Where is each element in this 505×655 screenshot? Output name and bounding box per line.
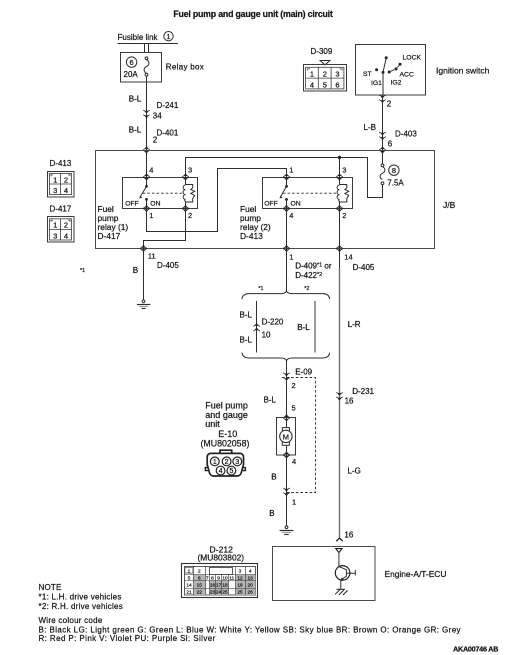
- svg-text:4: 4: [149, 166, 153, 175]
- svg-text:4: 4: [64, 186, 68, 195]
- relay 1 coil with parallel resistor: [183, 177, 195, 209]
- svg-text:L-R: L-R: [348, 320, 361, 329]
- svg-text:E-09: E-09: [295, 367, 312, 376]
- svg-text:Fusible link: Fusible link: [118, 33, 159, 42]
- svg-text:D-409*1 or: D-409*1 or: [295, 262, 332, 271]
- brace bottom: [242, 353, 330, 361]
- relay 2 pin 4: [283, 205, 289, 213]
- svg-text:7.5A: 7.5A: [387, 179, 404, 188]
- relay 1 pin 1: [143, 205, 149, 213]
- svg-text:NOTE: NOTE: [39, 583, 62, 592]
- svg-text:3: 3: [342, 166, 346, 175]
- svg-text:16: 16: [345, 397, 354, 406]
- relay 2 pin 1: [283, 173, 289, 181]
- svg-text:D-231: D-231: [352, 387, 374, 396]
- wire relay2 coil to J/B pin 14: [339, 209, 341, 249]
- svg-text:*1: *1: [80, 268, 85, 274]
- Engine-A/T-ECU box: [273, 547, 376, 601]
- svg-text:Ignition switch: Ignition switch: [436, 66, 490, 76]
- svg-text:34: 34: [153, 111, 162, 120]
- svg-text:Relay box: Relay box: [166, 63, 204, 72]
- svg-text:AKA00746 AB: AKA00746 AB: [453, 645, 498, 654]
- svg-text:6: 6: [388, 140, 393, 149]
- svg-text:4: 4: [249, 569, 252, 575]
- svg-text:8: 8: [211, 575, 214, 581]
- svg-text:1: 1: [149, 211, 153, 220]
- svg-text:IG1: IG1: [371, 80, 382, 87]
- chassis ground ECU: [335, 589, 347, 595]
- J/B exit pin 14: [336, 245, 342, 253]
- svg-text:18: 18: [222, 582, 228, 588]
- svg-text:2: 2: [153, 136, 158, 145]
- svg-text:D-403: D-403: [395, 130, 417, 139]
- svg-text:8: 8: [392, 166, 396, 175]
- svg-text:R: Red P: Pink V: Violet PU: R: Red P: Pink V: Violet PU: Purple Sl: …: [39, 634, 216, 643]
- svg-text:B: B: [269, 509, 274, 518]
- ground fuel pump: [280, 526, 294, 535]
- svg-text:ST: ST: [363, 71, 372, 78]
- ground left: [137, 300, 150, 309]
- svg-text:26: 26: [248, 590, 254, 596]
- svg-text:B: B: [133, 266, 138, 275]
- svg-text:LOCK: LOCK: [403, 55, 422, 62]
- svg-text:17: 17: [216, 582, 222, 588]
- svg-text:3: 3: [53, 186, 57, 195]
- svg-text:5: 5: [323, 81, 327, 90]
- svg-text:D-401: D-401: [157, 128, 179, 137]
- wire relay1 coil to J/B pin 11: [144, 209, 186, 249]
- J/B exit pin 1: [283, 245, 289, 253]
- svg-text:IG2: IG2: [391, 80, 402, 87]
- svg-text:2: 2: [225, 459, 229, 466]
- svg-text:ON: ON: [291, 200, 301, 207]
- svg-text:7: 7: [206, 575, 209, 581]
- svg-text:22: 22: [197, 590, 203, 596]
- svg-text:10: 10: [222, 575, 228, 581]
- fuel pump relay (1) box D-417: [123, 178, 198, 209]
- E-09 exit pin 1: [283, 488, 289, 496]
- svg-text:6: 6: [198, 575, 201, 581]
- svg-text:24: 24: [216, 590, 222, 596]
- wire B-L relay box to J/B: [146, 76, 148, 150]
- wire B-L inside J/B to relay 1 pin 4: [146, 150, 148, 177]
- svg-text:4: 4: [64, 231, 68, 240]
- wire relay1 switch out to relay2 switch in: [147, 169, 287, 232]
- svg-text:J/B: J/B: [443, 200, 456, 210]
- svg-text:E-10: E-10: [218, 429, 237, 439]
- svg-text:2: 2: [292, 381, 296, 390]
- svg-text:1: 1: [53, 175, 57, 184]
- svg-text:2: 2: [64, 221, 68, 230]
- svg-text:D-422*2: D-422*2: [295, 271, 322, 280]
- wire ignition IG1 to box bottom: [382, 74, 384, 95]
- relay 2 coil with parallel resistor: [337, 177, 349, 209]
- svg-text:*1: *1: [258, 286, 263, 292]
- svg-text:1: 1: [292, 497, 296, 506]
- J/B exit pin 11: [140, 245, 146, 253]
- svg-text:unit: unit: [205, 419, 220, 429]
- relay 2 pin 3: [336, 173, 342, 181]
- svg-text:25: 25: [237, 590, 243, 596]
- svg-text:1: 1: [310, 70, 314, 79]
- ignition switch contacts: [363, 55, 421, 88]
- svg-text:11: 11: [148, 252, 156, 261]
- svg-text:D-405: D-405: [353, 263, 375, 272]
- wire double line fusible link to relay box: [145, 44, 149, 53]
- fuse 6 20A: [126, 57, 136, 67]
- svg-text:3: 3: [239, 569, 242, 575]
- svg-text:(MU803802): (MU803802): [198, 552, 245, 562]
- ECU input triangle: [336, 549, 342, 553]
- svg-text:(MU802058): (MU802058): [201, 439, 250, 449]
- svg-text:5: 5: [292, 403, 296, 412]
- junction block J/B: [96, 151, 435, 249]
- svg-text:4: 4: [289, 211, 293, 220]
- wire below brace to E-09: [286, 361, 288, 378]
- svg-text:*2: *2: [304, 286, 309, 292]
- motor M: [280, 418, 292, 455]
- connector D-417 table: [48, 205, 75, 242]
- svg-text:25: 25: [222, 590, 228, 596]
- svg-text:14: 14: [344, 253, 352, 262]
- relay 1 actuation dashed line: [143, 192, 184, 194]
- svg-text:OFF: OFF: [264, 200, 278, 207]
- svg-text:B: B: [271, 473, 276, 482]
- svg-text:1: 1: [53, 221, 57, 230]
- svg-text:9: 9: [217, 575, 220, 581]
- svg-text:4: 4: [219, 468, 223, 475]
- fusible link bus bar: [118, 43, 179, 45]
- svg-text:5: 5: [188, 575, 191, 581]
- svg-text:B: Black LG: Light green G:: B: Black LG: Light green G: Green L: Blu…: [39, 626, 461, 635]
- svg-text:B-L: B-L: [129, 95, 142, 104]
- relay 1 pin 3: [182, 173, 188, 181]
- svg-text:D-417: D-417: [98, 231, 121, 241]
- svg-text:Fuel pump and gauge unit (main: Fuel pump and gauge unit (main) circuit: [173, 9, 333, 19]
- brace top: [242, 291, 330, 299]
- svg-text:B-L: B-L: [240, 335, 253, 344]
- svg-text:4: 4: [310, 81, 314, 90]
- svg-text:B-L: B-L: [264, 395, 277, 404]
- svg-text:5: 5: [229, 468, 233, 475]
- svg-text:M: M: [283, 432, 289, 441]
- svg-text:4: 4: [292, 457, 296, 466]
- svg-text:13: 13: [248, 575, 254, 581]
- wire alternative 2 B-L: [314, 301, 316, 353]
- connector D-212 table: [182, 564, 258, 598]
- svg-text:3: 3: [188, 166, 192, 175]
- relay 1 pin 4: [143, 173, 149, 181]
- svg-text:2: 2: [198, 569, 201, 575]
- relay box: [121, 53, 162, 83]
- svg-text:3: 3: [335, 70, 339, 79]
- svg-text:19: 19: [237, 582, 243, 588]
- wire fuse 8 to relay coils: [186, 158, 383, 198]
- svg-text:D-413: D-413: [240, 231, 263, 241]
- ignition switch box: [356, 45, 426, 96]
- connector D-413 table: [48, 159, 75, 197]
- transistor in ECU: [335, 553, 355, 589]
- wire from J/B pin 1 down to brace: [286, 249, 288, 291]
- svg-text:20: 20: [248, 582, 254, 588]
- svg-text:Wire colour code: Wire colour code: [39, 616, 103, 625]
- fuel pump relay (2) box D-413: [263, 178, 353, 209]
- fuse 8 7.5A: [380, 150, 404, 188]
- wire L-R / L-G from J/B pin 14 to ECU: [339, 249, 341, 269]
- connector D-309 table: [304, 65, 347, 92]
- svg-text:2: 2: [342, 211, 346, 220]
- relay 1 pin 2: [182, 205, 188, 213]
- svg-text:*1: L.H. drive vehicles: *1: L.H. drive vehicles: [39, 593, 122, 602]
- svg-text:1: 1: [213, 459, 217, 466]
- node junction to relay 2 coil: [338, 156, 341, 159]
- svg-text:3: 3: [53, 231, 57, 240]
- svg-text:2: 2: [323, 70, 327, 79]
- svg-text:D-417: D-417: [50, 205, 72, 214]
- svg-text:11: 11: [229, 575, 234, 581]
- svg-text:10: 10: [262, 330, 271, 339]
- svg-text:1: 1: [188, 569, 191, 575]
- svg-text:*2: R.H. drive vehicles: *2: R.H. drive vehicles: [39, 602, 123, 611]
- fusible link number 1: [164, 32, 173, 41]
- svg-text:14: 14: [186, 582, 192, 588]
- svg-text:ON: ON: [150, 200, 160, 207]
- fuel pump pin 4: [283, 451, 289, 459]
- svg-text:D-413: D-413: [50, 159, 72, 168]
- wire relay2 switch out to J/B pin 1: [286, 209, 288, 249]
- svg-text:B-L: B-L: [240, 311, 253, 320]
- wire L-B ignition to J/B: [382, 95, 384, 150]
- wire B to ground: [143, 249, 145, 300]
- svg-text:D-405: D-405: [157, 261, 179, 270]
- connector E-10 drawing: [205, 450, 245, 476]
- svg-text:2: 2: [188, 211, 192, 220]
- relay 2 actuation dashed line: [283, 192, 338, 194]
- svg-text:D-241: D-241: [157, 101, 179, 110]
- svg-text:21: 21: [186, 590, 192, 596]
- svg-text:1: 1: [289, 166, 293, 175]
- svg-text:L-G: L-G: [348, 466, 361, 475]
- relay 2 switch: [264, 177, 301, 209]
- svg-text:L-B: L-B: [364, 123, 376, 132]
- svg-text:2: 2: [387, 100, 392, 109]
- svg-text:OFF: OFF: [125, 200, 139, 207]
- connector D-309 marker triangle: [320, 61, 330, 65]
- svg-text:20A: 20A: [124, 70, 139, 79]
- svg-text:6: 6: [130, 58, 134, 67]
- svg-text:12: 12: [237, 575, 243, 581]
- wire B-L to pump: [286, 378, 288, 418]
- svg-text:Engine-A/T-ECU: Engine-A/T-ECU: [385, 569, 447, 579]
- svg-text:ACC: ACC: [400, 71, 414, 78]
- ignition exit pin 2: [379, 95, 385, 103]
- svg-text:1: 1: [289, 253, 293, 262]
- svg-text:D-220: D-220: [262, 317, 284, 326]
- svg-text:16: 16: [210, 582, 216, 588]
- wire B below pump: [286, 455, 288, 526]
- svg-text:D-309: D-309: [311, 47, 333, 56]
- svg-text:B-L: B-L: [297, 323, 310, 332]
- svg-text:1: 1: [167, 34, 171, 41]
- svg-text:15: 15: [197, 582, 203, 588]
- svg-text:2: 2: [64, 175, 68, 184]
- fuel pump motor box: [277, 418, 296, 456]
- svg-text:6: 6: [335, 81, 339, 90]
- relay 2 pin 2: [336, 205, 342, 213]
- relay 1 switch: [125, 177, 160, 209]
- svg-text:B-L: B-L: [129, 126, 142, 135]
- svg-text:23: 23: [210, 590, 216, 596]
- svg-text:16: 16: [344, 531, 353, 540]
- wire alternative 1 B-L: [256, 301, 258, 353]
- E-09 entry pin 2: [283, 373, 289, 381]
- svg-text:3: 3: [235, 459, 239, 466]
